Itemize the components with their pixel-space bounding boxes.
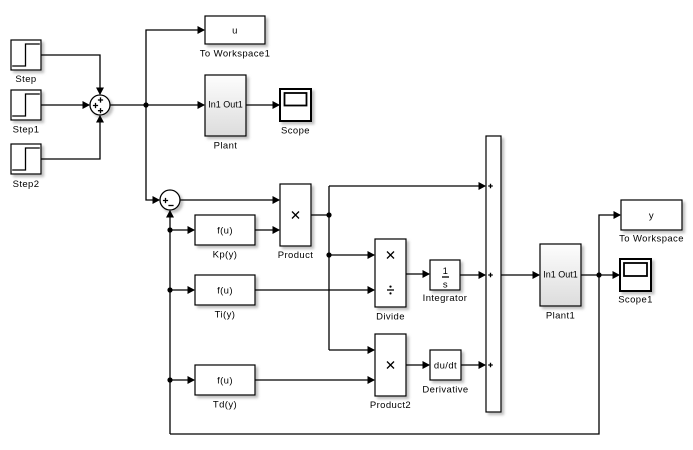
svg-text:f(u): f(u): [217, 286, 233, 297]
node Product output junction: [326, 212, 331, 217]
svg-text:Plant: Plant: [214, 141, 238, 152]
To Workspace1 block (u): [200, 16, 271, 60]
svg-text:Kp(y): Kp(y): [213, 250, 238, 261]
wire Integrator to Add1 input 2: [460, 271, 486, 279]
node riser to Divide junction: [326, 252, 331, 257]
wire Plant1 Out1 to junction: [581, 274, 599, 276]
svg-text:Product: Product: [278, 250, 314, 261]
wire Add output to Plant In1: [110, 101, 205, 109]
svg-text:To Workspace: To Workspace: [619, 234, 684, 245]
wire Product output to riser: [311, 214, 329, 216]
sum block Add (+ + +): [90, 95, 110, 115]
step source Step2: [11, 144, 41, 190]
sum block Add1 (tall + + +): [486, 136, 501, 412]
svg-text:Divide: Divide: [376, 312, 405, 323]
svg-text:To Workspace1: To Workspace1: [200, 49, 271, 60]
svg-text:Step: Step: [15, 74, 36, 85]
svg-text:In1 Out1: In1 Out1: [208, 100, 243, 110]
wire feedback riser up into Sum1 bottom: [166, 210, 174, 434]
integrator block Integrator (1/s): [423, 260, 468, 304]
wire riser to Divide input 1: [329, 251, 375, 259]
wire Sum1 output to Product input 1: [180, 196, 280, 204]
wire Step2 to Add bottom: [41, 115, 104, 159]
function block Ti(y): [195, 275, 255, 321]
node y branch junction: [596, 272, 601, 277]
wire Step1 to Add left: [41, 101, 90, 109]
step source Step1: [11, 90, 41, 136]
svg-text:Derivative: Derivative: [422, 385, 468, 396]
product block Product: [278, 184, 314, 261]
svg-text:Scope1: Scope1: [618, 295, 653, 306]
svg-text:Integrator: Integrator: [423, 293, 468, 304]
wire Ti(y) to Divide input 2: [255, 286, 375, 294]
svg-text:s: s: [443, 280, 448, 291]
wire Step to Add top: [41, 55, 104, 95]
wire branch to Scope1: [599, 271, 620, 279]
wire Td(y) to Product2 input 2: [255, 376, 375, 384]
wire to Td(y): [170, 376, 195, 384]
svg-text:f(u): f(u): [217, 376, 233, 387]
wire Add1 output to Plant1 In1: [501, 271, 540, 279]
scope Scope1: [618, 259, 653, 306]
wire riser to Product2 input 1: [329, 346, 375, 354]
step source Step: [11, 40, 41, 85]
scope Scope: [280, 89, 311, 137]
wire branch up to To Workspace1: [146, 26, 205, 105]
node feedback to Td junction: [167, 377, 172, 382]
wire feedback down and across: [170, 275, 599, 434]
function block Td(y): [195, 365, 255, 411]
wire Product2 to Derivative: [406, 361, 430, 369]
wire to Kp(y): [170, 226, 195, 234]
derivative block Derivative (du/dt): [422, 350, 468, 396]
wire Kp(y) to Product input 2: [255, 226, 280, 234]
svg-text:In1 Out1: In1 Out1: [543, 270, 578, 280]
subsystem Plant1: [540, 244, 581, 322]
svg-text:u: u: [232, 25, 238, 36]
svg-text:Scope: Scope: [281, 126, 310, 137]
function block Kp(y): [195, 215, 255, 261]
svg-text:Td(y): Td(y): [213, 400, 237, 411]
node feedback to Kp junction: [167, 227, 172, 232]
svg-text:1: 1: [443, 266, 449, 277]
svg-text:du/dt: du/dt: [434, 361, 457, 372]
wire Derivative to Add1 input 3: [461, 361, 486, 369]
svg-text:Product2: Product2: [370, 400, 411, 411]
wire riser x=329: [328, 186, 330, 350]
wire Divide to Integrator: [406, 270, 430, 278]
wire top line to Add1 input 1: [329, 182, 486, 190]
product block Product2: [370, 334, 411, 411]
wire branch down to Sum1 left: [146, 105, 160, 204]
svg-text:Step2: Step2: [13, 179, 40, 190]
subsystem Plant: [205, 75, 246, 152]
svg-text:y: y: [649, 210, 654, 221]
sum block Sum1 (+ -): [160, 190, 180, 210]
svg-text:f(u): f(u): [217, 226, 233, 237]
svg-text:Plant1: Plant1: [546, 311, 575, 322]
divide block Divide: [375, 239, 406, 323]
node feedback to Ti junction: [167, 287, 172, 292]
node u branch junction: [143, 102, 148, 107]
wire Plant Out1 to Scope: [246, 101, 280, 109]
wire to Ti(y): [170, 286, 195, 294]
wire branch up to To Workspace: [599, 211, 621, 275]
svg-text:Step1: Step1: [13, 125, 40, 136]
svg-text:Ti(y): Ti(y): [215, 310, 236, 321]
To Workspace block (y): [619, 200, 684, 245]
